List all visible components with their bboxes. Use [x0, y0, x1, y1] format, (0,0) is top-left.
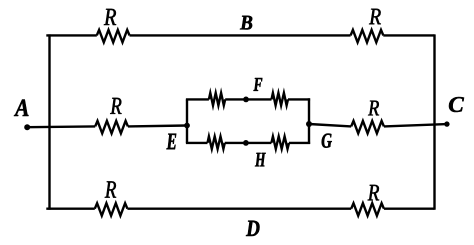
resistor R3 (middle left) — [95, 121, 128, 133]
wire top-left stub — [46, 34, 97, 36]
node H junction dot — [243, 140, 249, 146]
resistor R2 (top right) — [351, 30, 384, 43]
wire H left — [225, 142, 246, 144]
resistor r (H to G) — [271, 136, 289, 149]
label R1 value — [104, 9, 116, 25]
resistor R6 (bottom right) — [351, 203, 384, 216]
label node B — [240, 16, 252, 30]
wire R3 to node E — [128, 124, 187, 127]
wire box bottom-right segment — [289, 142, 310, 144]
label R3 value — [110, 98, 121, 114]
wire box bottom-left segment — [186, 142, 208, 144]
wire left vertical — [48, 34, 50, 209]
wire bottom middle — [127, 207, 351, 209]
wire H right — [246, 142, 272, 144]
wire box top-left segment — [186, 98, 209, 100]
wire top right — [383, 34, 434, 36]
resistor R1 (top left) — [97, 30, 130, 43]
node A terminal dot — [24, 124, 30, 130]
label node C — [449, 97, 464, 112]
node E junction dot — [184, 123, 190, 129]
label node D — [246, 221, 260, 236]
node F junction dot — [243, 97, 249, 103]
wire top middle — [130, 34, 351, 36]
wire R4 to node C — [384, 124, 447, 126]
resistor r (E to H) — [208, 136, 225, 149]
label node H — [255, 153, 266, 167]
label R2 value — [369, 9, 381, 24]
label node E — [167, 134, 177, 150]
wire A to R3 — [27, 125, 95, 128]
resistor R4 (middle right) — [351, 121, 384, 133]
node C terminal dot — [444, 121, 449, 126]
resistor r (E to F) — [209, 93, 225, 106]
wire box right edge — [308, 98, 310, 144]
wire right vertical — [433, 34, 435, 209]
wire box left edge — [186, 99, 188, 142]
resistor R5 (bottom left) — [95, 203, 128, 216]
label node G — [322, 134, 332, 148]
wire F right — [246, 98, 272, 100]
label node A — [14, 100, 29, 117]
label R4 value — [368, 101, 379, 116]
wire G to R4 — [309, 124, 351, 126]
wire box top-right segment — [288, 98, 310, 100]
label node F — [254, 78, 263, 91]
resistor r (F to G) — [272, 93, 289, 106]
wire bottom left — [46, 207, 95, 209]
wire bottom right — [384, 207, 435, 209]
wire F left — [225, 98, 246, 100]
label R6 value — [368, 185, 379, 200]
label R5 value — [105, 181, 116, 197]
node G junction dot — [306, 121, 312, 127]
